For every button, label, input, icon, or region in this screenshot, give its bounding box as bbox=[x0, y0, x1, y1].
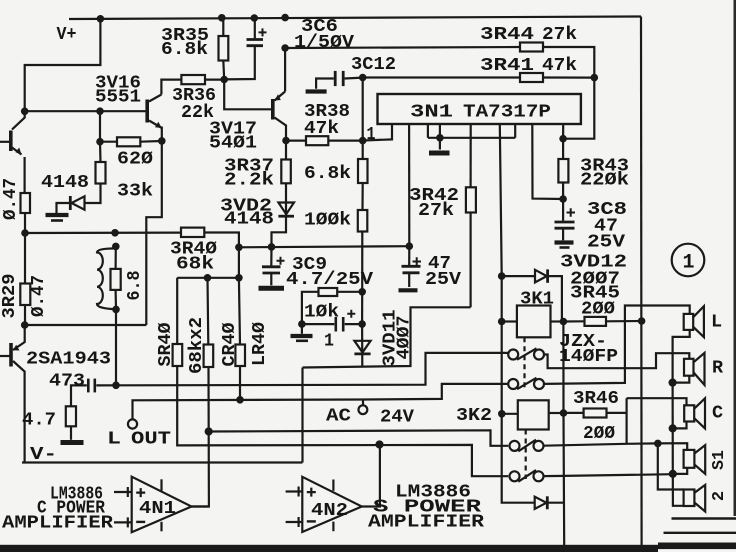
svg-text:3C12: 3C12 bbox=[351, 54, 396, 75]
svg-text:1Øk: 1Øk bbox=[304, 302, 339, 323]
speaker R bbox=[684, 353, 705, 385]
wire minus chain to S1 bbox=[672, 428, 674, 474]
node junction 3C6 rail bbox=[251, 14, 259, 22]
resistor 3R44 bbox=[520, 43, 543, 52]
svg-text:CR4Ø: CR4Ø bbox=[219, 323, 240, 367]
wire 3R36 right bbox=[205, 78, 224, 80]
node junction x100 y141 bbox=[96, 138, 104, 146]
ground below 3C9 bbox=[259, 286, 285, 291]
wire 3R35 top bbox=[222, 18, 224, 36]
wire 4N2 output riser bbox=[362, 444, 380, 506]
svg-text:68kx2: 68kx2 bbox=[186, 317, 207, 374]
wire IC pin8 bbox=[532, 124, 563, 199]
node junction 3R40 drop bbox=[235, 244, 243, 252]
node junction K1 right bbox=[560, 318, 568, 326]
wire x594 down-left to IC pin9 bbox=[563, 78, 594, 139]
svg-text:4.7/25V: 4.7/25V bbox=[286, 269, 374, 290]
node junction 3R43 bottom bbox=[559, 195, 567, 203]
svg-text:3N1: 3N1 bbox=[410, 102, 453, 123]
svg-text:LR4Ø: LR4Ø bbox=[249, 322, 270, 366]
node V+ junction bbox=[97, 15, 105, 23]
wire row4 right common bbox=[544, 474, 673, 476]
wire 68kx2 vertical bbox=[206, 278, 209, 345]
diode 3VD2 bbox=[278, 203, 294, 217]
svg-text:S1: S1 bbox=[710, 450, 729, 470]
wire 3R44 right corner bbox=[543, 47, 594, 78]
speaker S2 bbox=[684, 485, 706, 512]
wire 620 right bbox=[140, 140, 162, 143]
wire y77 from 3C12 to 3R41 bbox=[363, 76, 520, 78]
node junction pin9 bbox=[559, 135, 567, 143]
wire S1 speaker minus bbox=[673, 468, 687, 474]
wire 3VD12 anode bbox=[502, 275, 535, 277]
svg-text:33k: 33k bbox=[117, 181, 153, 202]
node junction x285 rail bbox=[281, 14, 289, 22]
switch blade K2a bbox=[518, 440, 536, 452]
wire 10k left leg bbox=[302, 292, 319, 324]
wire IC pin1 bbox=[363, 124, 392, 141]
speaker L bbox=[684, 306, 704, 337]
resistor 0.47 (left emitter) bbox=[21, 193, 31, 213]
wire minus chain to C bbox=[671, 383, 673, 429]
svg-text:27k: 27k bbox=[418, 200, 454, 221]
wire IC pin5 down through 3R42 bbox=[470, 124, 472, 187]
wire 3R46 link bbox=[564, 412, 584, 414]
node junction LR minus bbox=[669, 379, 677, 387]
ground below 4148 bbox=[46, 215, 69, 221]
wire 3R38 right bbox=[328, 140, 362, 142]
wire minus chain to S2 bbox=[673, 474, 684, 506]
svg-text:R: R bbox=[712, 358, 724, 379]
transistor 2SA1943 bbox=[0, 325, 25, 463]
resistor 3R29 bbox=[20, 284, 30, 306]
svg-text:25V: 25V bbox=[587, 232, 626, 253]
wire 3R42 bottom bbox=[470, 213, 472, 308]
node junction 10k right bbox=[358, 288, 366, 296]
capacitor 1 bbox=[302, 310, 362, 332]
node junction x362 y140 bbox=[359, 137, 367, 145]
wire x100 down bbox=[99, 111, 101, 142]
op-amp 4N1 bbox=[114, 477, 192, 533]
wire 33k top bbox=[99, 142, 102, 162]
node junction cap473 bbox=[112, 382, 120, 390]
wire 3R36 left to 3V16 collector bbox=[161, 80, 181, 95]
capacitor 3C6 bbox=[224, 18, 266, 79]
ground below cap47 bbox=[399, 288, 418, 292]
wire y431 to row3 bbox=[209, 430, 509, 446]
svg-text:4.7: 4.7 bbox=[22, 410, 56, 431]
svg-text:3K1: 3K1 bbox=[520, 289, 554, 310]
svg-text:1ØØk: 1ØØk bbox=[304, 210, 351, 231]
svg-text:27k: 27k bbox=[542, 24, 577, 45]
svg-text:L: L bbox=[107, 429, 121, 450]
wire IC pin7 bbox=[514, 124, 516, 138]
svg-text:6.8k: 6.8k bbox=[161, 39, 208, 60]
wire 6.8 bottom bbox=[114, 290, 117, 310]
wire 3R40 right to y247 bbox=[204, 233, 239, 248]
wire 0.47 to node bbox=[24, 213, 26, 233]
resistor 3R38 bbox=[306, 136, 328, 145]
node junction cap1 right bbox=[358, 320, 366, 328]
bottom border bar bbox=[0, 543, 736, 552]
wire y233 bus bbox=[25, 232, 181, 235]
node junction K2 left bbox=[498, 410, 506, 418]
svg-text:AMPLIFIER: AMPLIFIER bbox=[368, 512, 485, 533]
resistor 68kx2 bbox=[204, 345, 214, 368]
wire IC pin6 long vertical bbox=[500, 124, 535, 503]
svg-text:6.8: 6.8 bbox=[124, 271, 145, 301]
svg-text:4148: 4148 bbox=[224, 209, 274, 230]
wire long y366 bbox=[303, 307, 471, 367]
relay contact K1a circles bbox=[508, 348, 544, 359]
svg-text:3K2: 3K2 bbox=[456, 405, 492, 426]
transistor 3V17 bbox=[273, 92, 286, 141]
svg-text:4N2: 4N2 bbox=[311, 500, 348, 521]
node junction cap47 top bbox=[406, 242, 414, 250]
circled 1 marker bbox=[672, 244, 705, 277]
svg-text:AC: AC bbox=[326, 406, 351, 427]
resistor 6.8 bbox=[111, 269, 121, 290]
svg-text:1: 1 bbox=[683, 252, 695, 275]
wire 3V17 base bbox=[224, 80, 273, 110]
wire 6.8k bottom bbox=[361, 183, 363, 210]
node junction left bus bbox=[21, 108, 29, 116]
wire dashed K2 actuator bbox=[525, 430, 527, 480]
resistor 3R45 bbox=[585, 317, 607, 326]
wire 3R43 bottom bbox=[562, 183, 564, 200]
svg-text:25V: 25V bbox=[425, 269, 462, 290]
transistor Q-left (unlabelled) bbox=[0, 111, 25, 193]
wire right image edge border bbox=[733, 0, 736, 516]
wire 6.8 stubs bbox=[114, 246, 116, 269]
node junction x239 y278 bbox=[235, 274, 243, 282]
node junction x115 y233 bbox=[111, 229, 119, 237]
svg-text:4N1: 4N1 bbox=[139, 498, 176, 519]
wire K1 left bbox=[502, 320, 517, 322]
wire 620 left bbox=[100, 141, 117, 143]
node junction x285 y48 bbox=[281, 44, 289, 52]
wire 3R29 bottom bbox=[24, 305, 26, 325]
svg-text:1: 1 bbox=[324, 331, 334, 352]
node junction coil top bbox=[112, 243, 120, 251]
wire 68kx2 bottom to 4N1 bbox=[192, 367, 209, 507]
node junction 4N1 out bbox=[205, 427, 213, 435]
relay coil 3K1 bbox=[517, 306, 551, 338]
switch blade K1b bbox=[517, 378, 537, 389]
wire emitter net jog x162-x146 bbox=[146, 141, 162, 325]
wire x239 y247-y278 bbox=[238, 247, 240, 277]
node junction K2 right bbox=[560, 409, 568, 417]
node junction x24 y325 bbox=[21, 321, 29, 329]
wire 3R29 vertical bbox=[24, 233, 26, 284]
svg-text:SR4Ø: SR4Ø bbox=[155, 323, 176, 367]
ground below 3C12 bbox=[306, 89, 327, 93]
wire 3R37 bottom bbox=[272, 183, 287, 247]
capacitor 3C12 bbox=[335, 71, 343, 86]
svg-text:Ø.47: Ø.47 bbox=[28, 275, 49, 317]
resistor 4.7 bbox=[66, 406, 76, 426]
wire 3C12 left to ground bbox=[316, 79, 334, 89]
svg-text:68k: 68k bbox=[176, 254, 214, 275]
wire 3R41 right bbox=[543, 76, 594, 78]
svg-text:47k: 47k bbox=[542, 55, 577, 76]
wire y247 bus bbox=[239, 246, 409, 247]
wire x116 down to y385 bbox=[115, 309, 117, 385]
svg-text:C: C bbox=[712, 403, 723, 424]
wire V+ drop to left bbox=[25, 19, 101, 111]
op-amp 4N2 bbox=[286, 477, 362, 532]
resistor CR40 bbox=[235, 345, 245, 367]
resistor 3R40 bbox=[181, 228, 204, 237]
wire 3C12 right bbox=[345, 76, 363, 79]
svg-text:4148: 4148 bbox=[41, 172, 89, 193]
wire C feed bbox=[627, 398, 687, 405]
svg-text:6.8k: 6.8k bbox=[304, 163, 351, 184]
switch blade K2b bbox=[518, 470, 536, 482]
wire 3R37 top bbox=[285, 141, 287, 160]
svg-text:L: L bbox=[711, 312, 722, 333]
wire x626 vertical bbox=[625, 398, 627, 444]
resistor 10k bbox=[319, 288, 338, 296]
resistor 33k bbox=[96, 162, 106, 184]
node junction 3R45 right bbox=[638, 317, 646, 325]
resistor 3R35 bbox=[219, 36, 229, 61]
TEXT-BLOCK-1 bbox=[57, 16, 578, 154]
wire SR40 bottom to row4 bbox=[177, 366, 508, 476]
wire 3R38 left bbox=[286, 140, 306, 142]
wire C speaker minus bbox=[673, 422, 687, 429]
node junction x208 y278 bbox=[204, 274, 212, 282]
svg-text:5551: 5551 bbox=[95, 87, 141, 108]
svg-text:1/5ØV: 1/5ØV bbox=[294, 32, 355, 53]
node junction x362 y77 bbox=[359, 74, 367, 82]
ground below 4.7 bbox=[61, 426, 84, 442]
capacitor 47/25V bbox=[402, 246, 422, 287]
node junction 4N2 out bbox=[375, 440, 383, 448]
wire K1 right bbox=[551, 320, 564, 322]
wire 4148 cathode to ground bbox=[57, 203, 71, 214]
wire K2 right bbox=[549, 412, 564, 414]
svg-text:62Ø: 62Ø bbox=[117, 149, 153, 170]
IC 3N1 TA7317P bbox=[378, 94, 581, 124]
resistor 100k bbox=[358, 210, 368, 232]
resistor 3R41 bbox=[520, 73, 543, 82]
node junction CR40 top of LOUT bbox=[236, 396, 244, 404]
wire K1-K2 right vertical bbox=[562, 322, 565, 547]
diode K2 bottom bbox=[535, 496, 548, 509]
svg-text:AMPLIFIER: AMPLIFIER bbox=[2, 513, 114, 534]
wire 3R35 bottom bbox=[222, 61, 225, 80]
svg-text:1: 1 bbox=[367, 124, 376, 145]
node junction C minus bbox=[669, 424, 677, 432]
wire 3VD12 cathode down bbox=[548, 276, 562, 321]
wire top V+ rail bbox=[69, 17, 641, 20]
terminal AC bbox=[359, 405, 368, 414]
svg-text:4ØØ7: 4ØØ7 bbox=[394, 316, 415, 360]
capacitor 3C9 bbox=[262, 247, 285, 285]
svg-text:2: 2 bbox=[710, 491, 729, 501]
node junction 3VD2 y247 bbox=[268, 243, 276, 251]
wire 100k bottom through y247 bbox=[361, 232, 363, 292]
wire 3R45 link bbox=[563, 320, 584, 322]
ground below 10k left bbox=[291, 324, 313, 341]
resistor SR40 bbox=[173, 344, 183, 366]
node junction x224 y79 bbox=[220, 76, 228, 84]
wire 10k right leg bbox=[337, 291, 362, 293]
wire 3R45 right bbox=[606, 320, 642, 322]
svg-text:22Øk: 22Øk bbox=[580, 170, 629, 191]
wire 3V17 emitter top bbox=[284, 48, 286, 92]
resistor 3R42 bbox=[466, 187, 476, 212]
diode 3VD11 bbox=[354, 324, 370, 367]
resistor 3R43 bbox=[558, 159, 568, 183]
diode 3VD12 bbox=[535, 269, 548, 282]
node junction S2 drop bbox=[654, 440, 662, 448]
wire L OUT net y400 bbox=[133, 384, 509, 420]
wire S2 feed bbox=[658, 443, 684, 489]
resistor 3R46 bbox=[584, 409, 607, 418]
wire row3 right to S1 bbox=[544, 443, 688, 450]
relay coil 3K2 bbox=[518, 400, 549, 429]
wire x362 y291-y324 bbox=[361, 292, 363, 324]
svg-text:2SA1943: 2SA1943 bbox=[26, 349, 111, 370]
wire base bus y111 bbox=[25, 110, 146, 112]
wire 473 right to y385 bus bbox=[96, 353, 508, 386]
node junction 3R35 rail bbox=[218, 14, 226, 22]
wire y278 bus bbox=[177, 277, 239, 279]
capacitor 473 bbox=[88, 379, 95, 393]
wire diode cathode to bottom bbox=[548, 502, 564, 504]
wire x362 down bbox=[362, 78, 364, 160]
svg-text:2ØØ: 2ØØ bbox=[583, 423, 615, 444]
wire 33k bottom to diode bbox=[85, 184, 101, 204]
wire AC stub bbox=[362, 400, 364, 406]
wire row2 to L speaker bbox=[544, 306, 690, 384]
svg-text:54Ø1: 54Ø1 bbox=[209, 133, 257, 154]
node junction S1 minus bbox=[669, 470, 677, 478]
svg-text:OUT: OUT bbox=[131, 429, 171, 450]
wire R speaker minus bbox=[673, 376, 690, 383]
switch blade K1a bbox=[517, 348, 537, 359]
wire K2 left bbox=[502, 413, 518, 415]
wire pin bus y138 bbox=[428, 137, 515, 139]
svg-text:473: 473 bbox=[49, 371, 85, 392]
node junction x594 y77 bbox=[591, 74, 599, 82]
wire L speaker minus bbox=[673, 330, 690, 383]
speaker C bbox=[684, 398, 705, 428]
inductor L-out coil bbox=[97, 248, 116, 309]
svg-text:14ØFP: 14ØFP bbox=[559, 346, 618, 367]
diode 4148 bbox=[70, 196, 84, 210]
wire IC pin2 bbox=[408, 124, 410, 246]
wire IC pin9 bbox=[562, 124, 564, 139]
node junction 3V16 emitter bbox=[158, 137, 166, 145]
svg-text:3R46: 3R46 bbox=[573, 388, 619, 409]
terminal L OUT bbox=[128, 419, 137, 428]
node junction x100 y111 bbox=[96, 107, 104, 115]
svg-text:V+: V+ bbox=[57, 24, 77, 45]
wire V- riser x302 bbox=[301, 368, 303, 463]
speaker S1 bbox=[684, 445, 706, 474]
node junction x25 y233 bbox=[21, 229, 29, 237]
svg-text:2ØØ: 2ØØ bbox=[581, 299, 615, 320]
node junction 10k left bottom bbox=[298, 320, 306, 328]
node junction 3VD12 anode bbox=[498, 272, 506, 280]
svg-text:2.2k: 2.2k bbox=[224, 170, 274, 191]
resistor 3R36 bbox=[181, 75, 205, 84]
node junction coil bottom bbox=[112, 306, 120, 314]
svg-text:24V: 24V bbox=[380, 407, 415, 428]
wire 473 left leg bbox=[71, 385, 87, 406]
wire y325 bbox=[25, 324, 147, 326]
resistor 6.8k bbox=[358, 159, 368, 183]
wire SR40 vertical bbox=[176, 278, 178, 344]
resistor 620 bbox=[117, 137, 140, 146]
svg-text:TA7317P: TA7317P bbox=[463, 102, 551, 123]
wire V- rail bbox=[22, 461, 303, 463]
wire dashed K1 actuator bbox=[523, 337, 525, 388]
wire row1 to R speaker bbox=[544, 353, 689, 368]
relay contact K2a circles bbox=[510, 440, 544, 452]
wire 3R46 right riser bbox=[607, 412, 627, 414]
wire CR40 vertical bbox=[239, 278, 240, 345]
relay contact K1b circles bbox=[508, 378, 544, 389]
TEXT-BLOCK-2 bbox=[0, 102, 729, 534]
wire 3R43 top bbox=[562, 139, 564, 159]
transistor 3V16 bbox=[147, 95, 162, 141]
svg-text:V-: V- bbox=[30, 444, 57, 465]
wire CR40 bottom bbox=[239, 366, 241, 400]
capacitor 3C8 bbox=[555, 199, 576, 240]
wire IC pin3 bbox=[427, 124, 429, 138]
ground below 3C8 bbox=[555, 243, 574, 248]
node junction pin4 bbox=[436, 134, 444, 142]
svg-text:3R29: 3R29 bbox=[0, 274, 20, 319]
wire right border vertical bbox=[640, 17, 643, 546]
node junction K1 left bbox=[498, 318, 506, 326]
relay contact K2b circles bbox=[510, 470, 544, 482]
resistor 3R37 bbox=[281, 160, 291, 184]
ground below pin4 bbox=[429, 138, 450, 153]
bottom right lines bbox=[664, 519, 736, 533]
wire 4N1 output bbox=[192, 505, 209, 507]
node junction 3V17 collector bbox=[282, 137, 290, 145]
wire IC pin4 bbox=[439, 124, 441, 138]
wire y48 to 3R44 bbox=[285, 47, 520, 48]
svg-text:Ø.47: Ø.47 bbox=[0, 178, 21, 220]
